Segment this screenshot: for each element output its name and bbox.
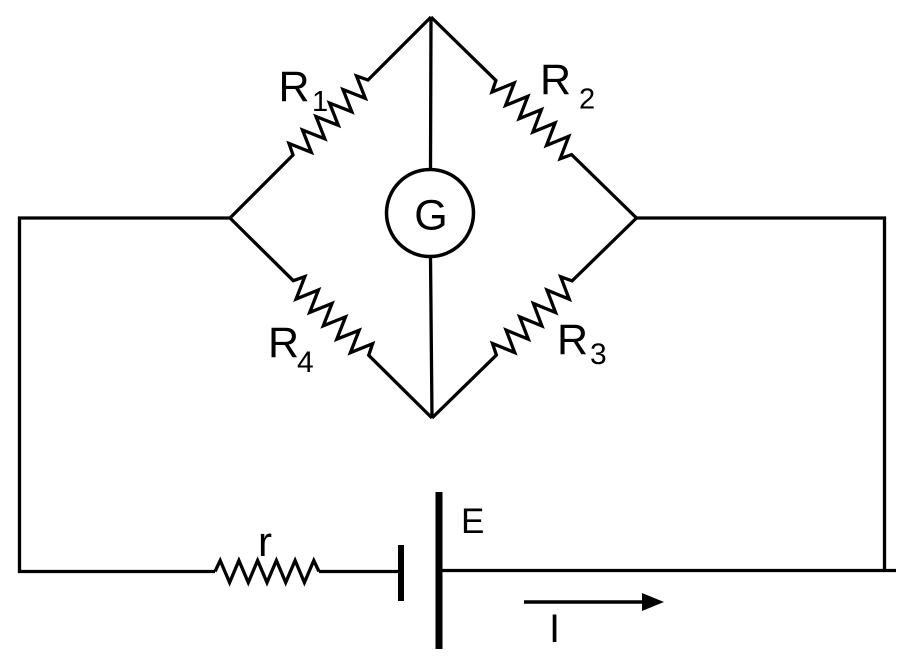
svg-text:1: 1 — [312, 86, 328, 118]
svg-text:3: 3 — [590, 338, 607, 371]
svg-text:E: E — [461, 502, 484, 541]
battery positive plate E (long) — [436, 492, 443, 649]
galvanometer wire bottom — [431, 257, 433, 419]
svg-text:2: 2 — [579, 84, 595, 116]
svg-text:R: R — [279, 63, 310, 111]
current arrow — [524, 600, 648, 603]
wire left horizontal + left vertical + bottom-left segment — [20, 218, 231, 572]
svg-text:R: R — [540, 56, 571, 104]
resistor R2 (arm top-right) — [431, 17, 637, 218]
wire battery to bottom-right, right vertical, top-right horizontal — [442, 569, 896, 572]
galvanometer wire top — [429, 17, 433, 170]
wire from r to battery — [319, 570, 398, 573]
resistor R4 (arm bottom-left) — [230, 218, 432, 418]
svg-text:r: r — [258, 518, 272, 565]
svg-text:R: R — [557, 316, 588, 364]
resistor r — [215, 561, 319, 583]
resistor R3 (arm bottom-right) — [432, 218, 637, 418]
resistor R1 (arm top-left) — [230, 17, 431, 218]
svg-text:I: I — [549, 607, 560, 651]
galvanometer G — [387, 170, 474, 257]
battery negative plate (short) — [398, 545, 404, 601]
svg-text:R: R — [268, 319, 299, 367]
svg-text:4: 4 — [297, 346, 314, 379]
svg-text:G: G — [414, 192, 447, 240]
